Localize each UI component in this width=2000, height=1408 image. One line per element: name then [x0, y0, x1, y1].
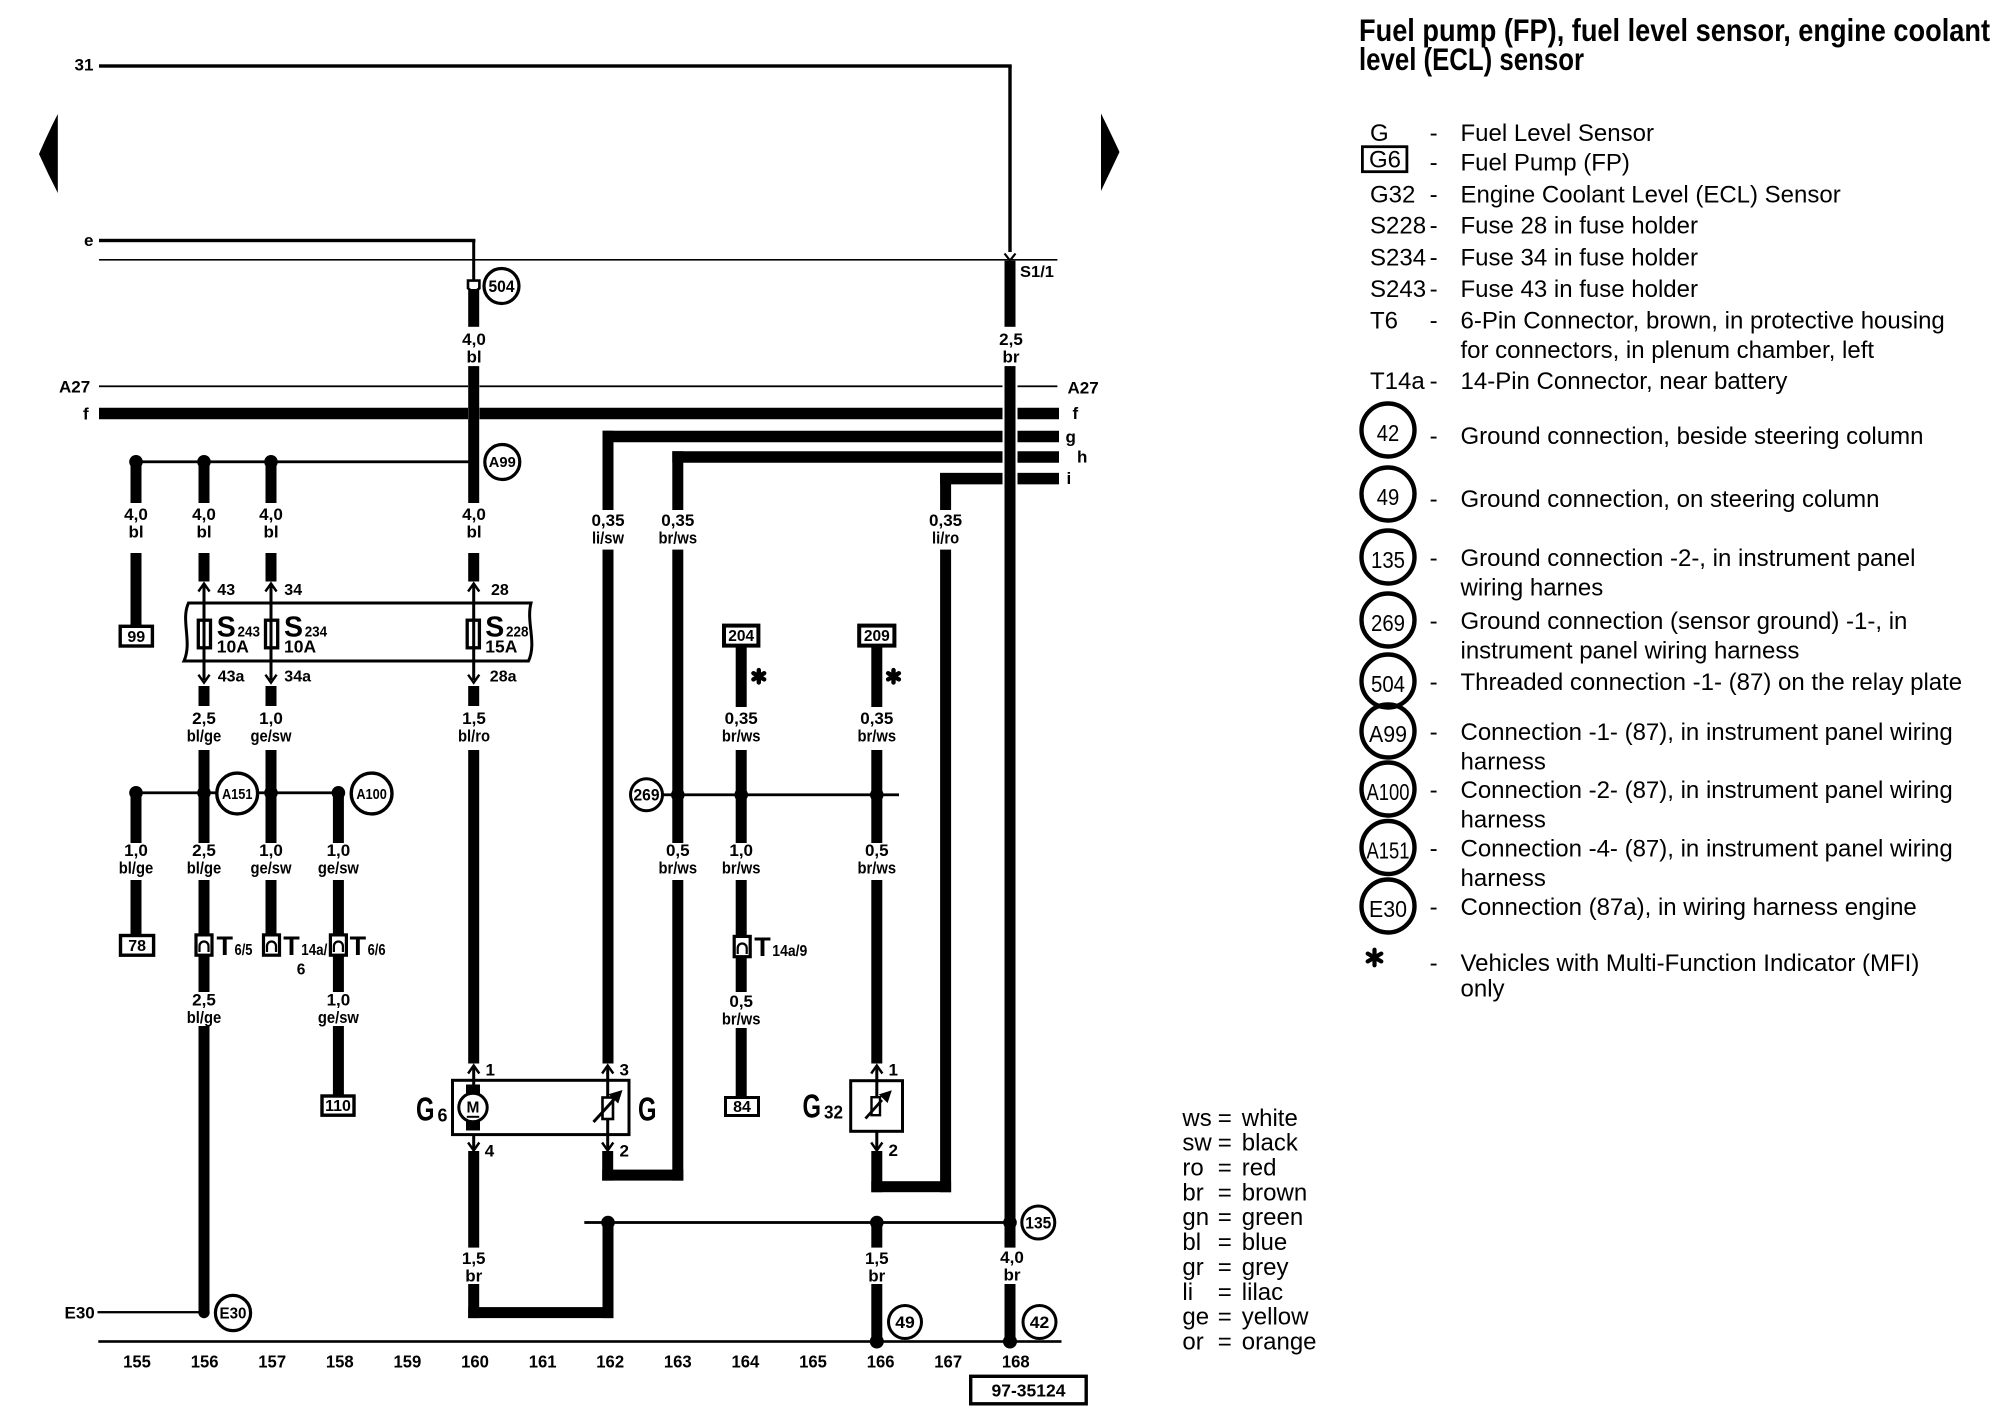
svg-text:e: e — [84, 231, 93, 250]
junction dot on earth line — [870, 1335, 884, 1349]
svg-text:-: - — [1430, 608, 1438, 635]
svg-text:bl/ge: bl/ge — [187, 859, 222, 878]
svg-text:135: 135 — [1025, 1214, 1051, 1232]
fuse S243 symbol — [198, 620, 210, 648]
svg-text:32: 32 — [824, 1103, 843, 1123]
svg-text:78: 78 — [128, 938, 146, 955]
junction dot — [870, 1216, 884, 1230]
svg-text:T14a: T14a — [1370, 368, 1425, 395]
connector T6/6 symbol — [330, 935, 346, 955]
svg-text:bl: bl — [466, 348, 481, 367]
connection A151 circle — [217, 773, 258, 814]
wire 1,0 ge/sw to connector T14a/6 — [266, 793, 277, 843]
legend circle 49 — [1362, 468, 1415, 521]
svg-text:red: red — [1242, 1155, 1277, 1182]
svg-text:3: 3 — [620, 1061, 629, 1080]
svg-text:4,0: 4,0 — [462, 330, 486, 349]
svg-text:6-Pin Connector, brown, in pro: 6-Pin Connector, brown, in protective ho… — [1461, 308, 1945, 335]
svg-text:6: 6 — [297, 961, 306, 978]
svg-text:166: 166 — [867, 1352, 895, 1372]
fuel pump G6 / fuel level sensor G box — [453, 1080, 630, 1134]
svg-text:=: = — [1218, 1328, 1232, 1355]
fuse S228 symbol — [467, 620, 479, 648]
svg-text:42: 42 — [1030, 1314, 1050, 1332]
svg-text:T: T — [217, 931, 234, 961]
svg-text:168: 168 — [1002, 1352, 1030, 1372]
svg-text:=: = — [1218, 1105, 1232, 1132]
svg-text:1,0: 1,0 — [729, 841, 753, 860]
junction dot — [129, 455, 143, 469]
svg-text:A99: A99 — [489, 454, 516, 471]
svg-text:G: G — [416, 1091, 435, 1128]
svg-text:bl: bl — [1182, 1229, 1201, 1256]
svg-text:bl/ge: bl/ge — [187, 1008, 222, 1027]
current track earth line — [98, 1340, 1061, 1343]
svg-text:A151: A151 — [1367, 838, 1410, 864]
svg-text:2,5: 2,5 — [192, 991, 216, 1010]
svg-text:gr: gr — [1182, 1254, 1203, 1281]
svg-text:=: = — [1218, 1155, 1232, 1182]
S1/1 arrow — [1005, 254, 1016, 261]
svg-text:1: 1 — [889, 1061, 898, 1080]
bus bar g with corner down — [603, 431, 1003, 443]
svg-text:br/ws: br/ws — [722, 1010, 761, 1029]
connection 504 circle — [484, 269, 519, 304]
svg-text:G32: G32 — [1370, 182, 1415, 209]
svg-text:-: - — [1430, 182, 1438, 209]
svg-text:bl: bl — [466, 523, 481, 542]
G6 pin 1 — [468, 1066, 479, 1074]
svg-text:6: 6 — [438, 1106, 448, 1126]
svg-text:Engine Coolant Level (ECL) Sen: Engine Coolant Level (ECL) Sensor — [1461, 182, 1841, 209]
legend circle A99 — [1362, 705, 1415, 758]
connection E30 circle — [215, 1295, 250, 1330]
fuse pin 43 — [198, 584, 209, 592]
svg-text:161: 161 — [529, 1352, 557, 1372]
svg-text:34: 34 — [284, 582, 302, 599]
legend circle 135 — [1362, 531, 1415, 584]
wire e horizontal + down to threaded connection 504 — [99, 239, 475, 242]
junction dot — [870, 788, 884, 802]
wire 0,5 br/ws from 269 to fuel level sensor G pin 2 — [672, 792, 683, 843]
svg-text:Connection -1- (87), in instru: Connection -1- (87), in instrument panel… — [1461, 719, 1953, 746]
ground connection 49 circle — [889, 1306, 922, 1339]
svg-text:G6: G6 — [1369, 147, 1401, 174]
junction line 135 — [584, 1221, 1010, 1224]
connection A100 circle — [351, 773, 392, 814]
svg-text:0,35: 0,35 — [929, 511, 962, 530]
fuse pin 28a — [468, 675, 479, 683]
bus bar h with corner down — [672, 451, 1002, 463]
terminal box 110 — [322, 1096, 354, 1115]
junction line A99 — [136, 460, 474, 463]
svg-text:Fuse 43 in fuse holder: Fuse 43 in fuse holder — [1461, 276, 1698, 303]
svg-text:=: = — [1218, 1130, 1232, 1157]
junction dot — [197, 455, 211, 469]
svg-text:Fuel Level Sensor: Fuel Level Sensor — [1461, 120, 1654, 147]
wire 4,0 bl to fuse S243 — [199, 462, 210, 503]
terminal box 78 — [121, 936, 154, 956]
svg-text:Threaded connection -1- (87) o: Threaded connection -1- (87) on the rela… — [1461, 669, 1963, 696]
svg-text:brown: brown — [1242, 1179, 1307, 1206]
junction line A151/A100 — [136, 791, 338, 794]
fuse pin 43a — [198, 675, 209, 683]
svg-text:-: - — [1430, 244, 1438, 271]
svg-text:br: br — [1182, 1179, 1203, 1206]
fuse pin 28 — [468, 584, 479, 592]
svg-text:2,5: 2,5 — [999, 330, 1023, 349]
wire 4,0 bl to fuse S234 — [266, 462, 277, 503]
svg-text:E30: E30 — [65, 1304, 95, 1323]
legend circle 504 — [1362, 655, 1415, 708]
svg-text:harness: harness — [1461, 865, 1546, 892]
svg-text:-: - — [1430, 950, 1438, 977]
junction dot — [734, 788, 748, 802]
svg-text:204: 204 — [728, 628, 754, 645]
svg-text:bl/ge: bl/ge — [187, 727, 222, 746]
svg-text:bl: bl — [128, 523, 143, 542]
svg-text:=: = — [1218, 1204, 1232, 1231]
svg-text:=: = — [1218, 1279, 1232, 1306]
svg-text:ro: ro — [1182, 1155, 1203, 1182]
svg-text:T: T — [754, 932, 771, 962]
svg-text:135: 135 — [1371, 547, 1405, 573]
svg-text:4,0: 4,0 — [192, 505, 216, 524]
svg-text:S228: S228 — [1370, 213, 1426, 240]
wire 1,0 ge/sw below fuse S234 — [266, 686, 277, 706]
svg-text:A27: A27 — [59, 378, 90, 397]
svg-text:158: 158 — [326, 1352, 354, 1372]
svg-text:grey: grey — [1242, 1254, 1289, 1281]
wire 2,5 bl/ge to connector T6/5 — [199, 793, 210, 843]
drawing number box — [971, 1376, 1086, 1404]
svg-text:43: 43 — [217, 582, 235, 599]
svg-text:1,5: 1,5 — [462, 709, 486, 728]
direction arrow left — [39, 114, 58, 193]
svg-text:li/sw: li/sw — [592, 529, 625, 548]
svg-text:yellow: yellow — [1242, 1304, 1309, 1331]
wire 0,35 li/ro from bus i to ECL sensor G32 ground loop — [940, 473, 951, 510]
svg-text:blue: blue — [1242, 1229, 1287, 1256]
G32 pin 1 — [871, 1066, 882, 1074]
svg-text:1,5: 1,5 — [462, 1249, 486, 1268]
svg-text:br: br — [868, 1267, 885, 1286]
svg-text:M: M — [467, 1100, 480, 1117]
svg-text:4,0: 4,0 — [1000, 1248, 1024, 1267]
svg-text:157: 157 — [258, 1352, 286, 1372]
junction dot — [332, 786, 346, 800]
svg-text:49: 49 — [895, 1314, 915, 1332]
svg-text:-: - — [1430, 308, 1438, 335]
svg-text:0,35: 0,35 — [860, 709, 893, 728]
direction arrow right — [1101, 114, 1120, 192]
svg-text:black: black — [1242, 1130, 1299, 1157]
connector T14a/9 symbol — [734, 936, 750, 956]
svg-text:bl/ge: bl/ge — [119, 859, 154, 878]
wire 0,35 br/ws below 209 — [871, 646, 882, 707]
wire 1,0 br/ws from 269 junction to T14a/9 — [736, 792, 747, 843]
svg-text:i: i — [1067, 469, 1072, 488]
legend circle A151 — [1362, 821, 1415, 874]
svg-text:84: 84 — [733, 1099, 751, 1116]
svg-text:269: 269 — [1371, 610, 1405, 636]
terminal box 99 — [120, 626, 152, 646]
svg-text:G: G — [1370, 120, 1389, 147]
wire 0,35 br/ws from bus h to sensor ground 269 — [672, 451, 683, 510]
svg-text:269: 269 — [634, 787, 660, 805]
terminal box 204 — [724, 626, 758, 646]
svg-text:4: 4 — [485, 1142, 495, 1161]
svg-text:504: 504 — [1371, 671, 1405, 697]
junction dot on earth line — [1003, 1335, 1017, 1349]
svg-text:S1/1: S1/1 — [1020, 264, 1054, 281]
junction dot — [601, 1216, 615, 1230]
svg-text:G: G — [638, 1091, 657, 1128]
svg-text:gn: gn — [1182, 1204, 1209, 1231]
svg-text:wiring harnes: wiring harnes — [1460, 575, 1604, 602]
svg-text:harness: harness — [1461, 749, 1546, 776]
legend circle A100 — [1362, 763, 1415, 816]
svg-text:-: - — [1430, 368, 1438, 395]
svg-text:g: g — [1066, 428, 1076, 447]
svg-text:15A: 15A — [485, 636, 517, 656]
G pin 2 — [606, 1119, 609, 1150]
svg-text:2,5: 2,5 — [192, 841, 216, 860]
svg-text:instrument panel wiring harnes: instrument panel wiring harness — [1461, 638, 1800, 665]
svg-text:=: = — [1218, 1254, 1232, 1281]
svg-text:=: = — [1218, 1304, 1232, 1331]
connector T6/5 symbol — [196, 935, 212, 955]
wire thin track line — [99, 259, 1057, 261]
svg-text:1,0: 1,0 — [259, 709, 283, 728]
svg-text:Vehicles with Multi-Function I: Vehicles with Multi-Function Indicator (… — [1461, 950, 1920, 977]
svg-text:4,0: 4,0 — [259, 505, 283, 524]
svg-text:f: f — [1073, 404, 1079, 423]
svg-text:-: - — [1430, 423, 1438, 450]
svg-text:-: - — [1430, 836, 1438, 863]
svg-text:ge/sw: ge/sw — [318, 859, 360, 878]
svg-text:-: - — [1430, 894, 1438, 921]
wire 0,35 br/ws below 204 — [736, 646, 747, 707]
svg-text:Connection (87a), in wiring ha: Connection (87a), in wiring harness engi… — [1461, 894, 1917, 921]
svg-text:or: or — [1182, 1328, 1203, 1355]
svg-text:br: br — [465, 1267, 482, 1286]
svg-text:=: = — [1218, 1179, 1232, 1206]
MFI asterisk — [753, 670, 764, 682]
ground connection 135 circle — [1022, 1206, 1055, 1239]
svg-text:0,5: 0,5 — [865, 841, 889, 860]
svg-text:155: 155 — [123, 1352, 151, 1372]
svg-text:br: br — [1003, 348, 1020, 367]
svg-text:=: = — [1218, 1229, 1232, 1256]
svg-text:Fuse 28 in fuse holder: Fuse 28 in fuse holder — [1461, 213, 1698, 240]
svg-text:1,0: 1,0 — [327, 841, 351, 860]
svg-text:Ground connection, on steering: Ground connection, on steering column — [1461, 486, 1880, 513]
svg-text:Connection -2- (87), in instru: Connection -2- (87), in instrument panel… — [1461, 777, 1953, 804]
ground connection 42 circle — [1023, 1306, 1056, 1339]
svg-text:ge/sw: ge/sw — [250, 727, 292, 746]
bus bar i with corner down — [940, 473, 1002, 485]
junction dot E30 — [198, 1307, 209, 1318]
junction dot — [264, 786, 278, 800]
svg-text:14a/: 14a/ — [301, 942, 328, 959]
motor symbol M — [466, 1085, 480, 1096]
svg-text:li: li — [1182, 1279, 1193, 1306]
wire G32 ground loop to li/ro — [871, 1151, 882, 1192]
svg-text:T: T — [350, 931, 367, 961]
threaded connection 504 screw symbol — [468, 281, 479, 293]
svg-text:1,5: 1,5 — [865, 1249, 889, 1268]
terminal box 84 — [726, 1098, 759, 1116]
legend circle E30 — [1362, 880, 1415, 933]
wire 1,5 br to ground connection 49 — [871, 1223, 882, 1248]
connection A99 circle — [485, 445, 520, 480]
svg-text:0,35: 0,35 — [591, 511, 624, 530]
svg-text:4,0: 4,0 — [462, 505, 486, 524]
svg-text:f: f — [83, 405, 89, 424]
wire 1,5 br from G6 pin 4 to ground connection 135 line — [468, 1151, 479, 1248]
svg-text:orange: orange — [1242, 1328, 1317, 1355]
svg-text:A27: A27 — [1068, 379, 1099, 398]
legend G6 box — [1362, 147, 1407, 172]
svg-text:S234: S234 — [1370, 244, 1426, 271]
svg-text:28a: 28a — [490, 669, 517, 686]
svg-text:43a: 43a — [218, 669, 245, 686]
legend circle 42 — [1362, 404, 1415, 457]
svg-text:-: - — [1430, 150, 1438, 177]
fuse pin 34 — [265, 584, 276, 592]
bus bar f — [99, 408, 468, 420]
svg-text:Connection -4- (87), in instru: Connection -4- (87), in instrument panel… — [1461, 836, 1953, 863]
svg-text:h: h — [1077, 448, 1087, 467]
svg-text:-: - — [1430, 486, 1438, 513]
svg-text:99: 99 — [127, 629, 145, 646]
junction dot — [264, 455, 278, 469]
svg-text:A151: A151 — [222, 786, 253, 803]
svg-text:164: 164 — [732, 1352, 760, 1372]
svg-text:159: 159 — [394, 1352, 422, 1372]
svg-text:br/ws: br/ws — [659, 529, 698, 548]
svg-text:sw: sw — [1182, 1130, 1212, 1157]
svg-text:for connectors, in plenum cham: for connectors, in plenum chamber, left — [1461, 337, 1875, 364]
junction dot — [671, 788, 685, 802]
junction dot — [1003, 1216, 1017, 1230]
svg-text:-: - — [1430, 719, 1438, 746]
svg-text:-: - — [1430, 276, 1438, 303]
svg-text:E30: E30 — [1369, 896, 1407, 922]
svg-text:-: - — [1430, 545, 1438, 572]
svg-text:1: 1 — [486, 1061, 495, 1080]
junction line 269 — [663, 793, 900, 796]
svg-text:Ground connection -2-, in inst: Ground connection -2-, in instrument pan… — [1461, 545, 1916, 572]
svg-text:A100: A100 — [356, 786, 387, 803]
svg-text:2: 2 — [889, 1141, 898, 1160]
svg-text:br: br — [1004, 1266, 1021, 1285]
wire 1,0 bl/ge to terminal 78 — [131, 793, 142, 843]
svg-text:only: only — [1461, 975, 1505, 1002]
svg-text:ge: ge — [1182, 1304, 1209, 1331]
svg-text:110: 110 — [325, 1098, 351, 1115]
svg-text:167: 167 — [934, 1352, 962, 1372]
svg-text:li/ro: li/ro — [932, 529, 959, 548]
svg-text:lilac: lilac — [1242, 1279, 1283, 1306]
svg-text:Ground connection, beside stee: Ground connection, beside steering colum… — [1461, 423, 1924, 450]
G pin 3 — [602, 1066, 613, 1074]
svg-text:49: 49 — [1377, 484, 1400, 510]
svg-text:br/ws: br/ws — [659, 859, 698, 878]
svg-text:160: 160 — [461, 1352, 489, 1372]
G6 pin 4 — [472, 1135, 475, 1150]
wire 1,0 ge/sw to connector T6/6 and terminal 110 — [333, 793, 344, 843]
svg-text:165: 165 — [799, 1352, 827, 1372]
legend asterisk — [1368, 950, 1382, 966]
svg-text:br/ws: br/ws — [858, 859, 897, 878]
wire 31 (ground rail) horizontal+down to S1/1 — [99, 64, 1012, 67]
svg-text:harness: harness — [1461, 807, 1546, 834]
svg-text:E30: E30 — [220, 1305, 247, 1322]
connector T14a/6 symbol — [264, 935, 280, 955]
svg-text:white: white — [1241, 1105, 1298, 1132]
svg-text:0,35: 0,35 — [661, 511, 694, 530]
svg-text:1,0: 1,0 — [259, 841, 283, 860]
svg-text:156: 156 — [191, 1352, 219, 1372]
svg-text:1,0: 1,0 — [124, 841, 148, 860]
svg-text:ge/sw: ge/sw — [318, 1008, 360, 1027]
wire 0,5 br/ws from 269 junction to ECL sensor G32 pin 1 — [871, 792, 882, 843]
svg-text:10A: 10A — [284, 636, 316, 656]
wire 4,0 bl from 504 down — [468, 289, 479, 327]
svg-text:-: - — [1430, 120, 1438, 147]
svg-text:2: 2 — [620, 1142, 629, 1161]
svg-text:Fuel Pump (FP): Fuel Pump (FP) — [1461, 150, 1630, 177]
svg-text:A100: A100 — [1367, 779, 1410, 805]
fuse holder strip — [184, 603, 532, 661]
wire 2,5/4,0 br continues down to ground 42 — [1005, 366, 1016, 1248]
G32 pin 2 — [875, 1131, 878, 1150]
ECL sensor symbol — [872, 1097, 881, 1115]
connection 269 circle — [631, 779, 663, 811]
wire E30 line — [98, 1311, 205, 1313]
svg-text:green: green — [1242, 1204, 1303, 1231]
wire 0,35 li/sw from bus g to fuel level sensor G pin 3 — [603, 431, 614, 510]
svg-text:28: 28 — [491, 582, 509, 599]
wire 2,5 bl/ge to connection E30 — [199, 955, 210, 992]
svg-text:A99: A99 — [1369, 721, 1407, 747]
wire 4,0 bl continues to A99 and fuse S228 — [468, 366, 479, 503]
svg-text:bl: bl — [263, 523, 278, 542]
svg-text:-: - — [1430, 213, 1438, 240]
svg-text:14-Pin Connector, near battery: 14-Pin Connector, near battery — [1461, 368, 1788, 395]
bus bar A27 thin line — [99, 385, 468, 387]
svg-text:14a/9: 14a/9 — [772, 943, 807, 960]
wire corner to G pin 2 — [602, 1170, 683, 1181]
junction dot — [129, 786, 143, 800]
junction dot — [197, 786, 211, 800]
svg-text:-: - — [1430, 669, 1438, 696]
fuse pin 34a — [265, 675, 276, 683]
fuse S234 symbol — [266, 620, 278, 648]
svg-text:-: - — [1430, 777, 1438, 804]
svg-text:Fuse 34 in fuse holder: Fuse 34 in fuse holder — [1461, 244, 1698, 271]
svg-text:G: G — [803, 1088, 822, 1125]
svg-text:163: 163 — [664, 1352, 692, 1372]
svg-text:97-35124: 97-35124 — [992, 1381, 1066, 1401]
svg-text:S243: S243 — [1370, 276, 1426, 303]
svg-text:0,35: 0,35 — [725, 709, 758, 728]
svg-text:br/ws: br/ws — [722, 859, 761, 878]
svg-text:level (ECL) sensor: level (ECL) sensor — [1359, 41, 1584, 77]
MFI asterisk — [888, 670, 899, 682]
